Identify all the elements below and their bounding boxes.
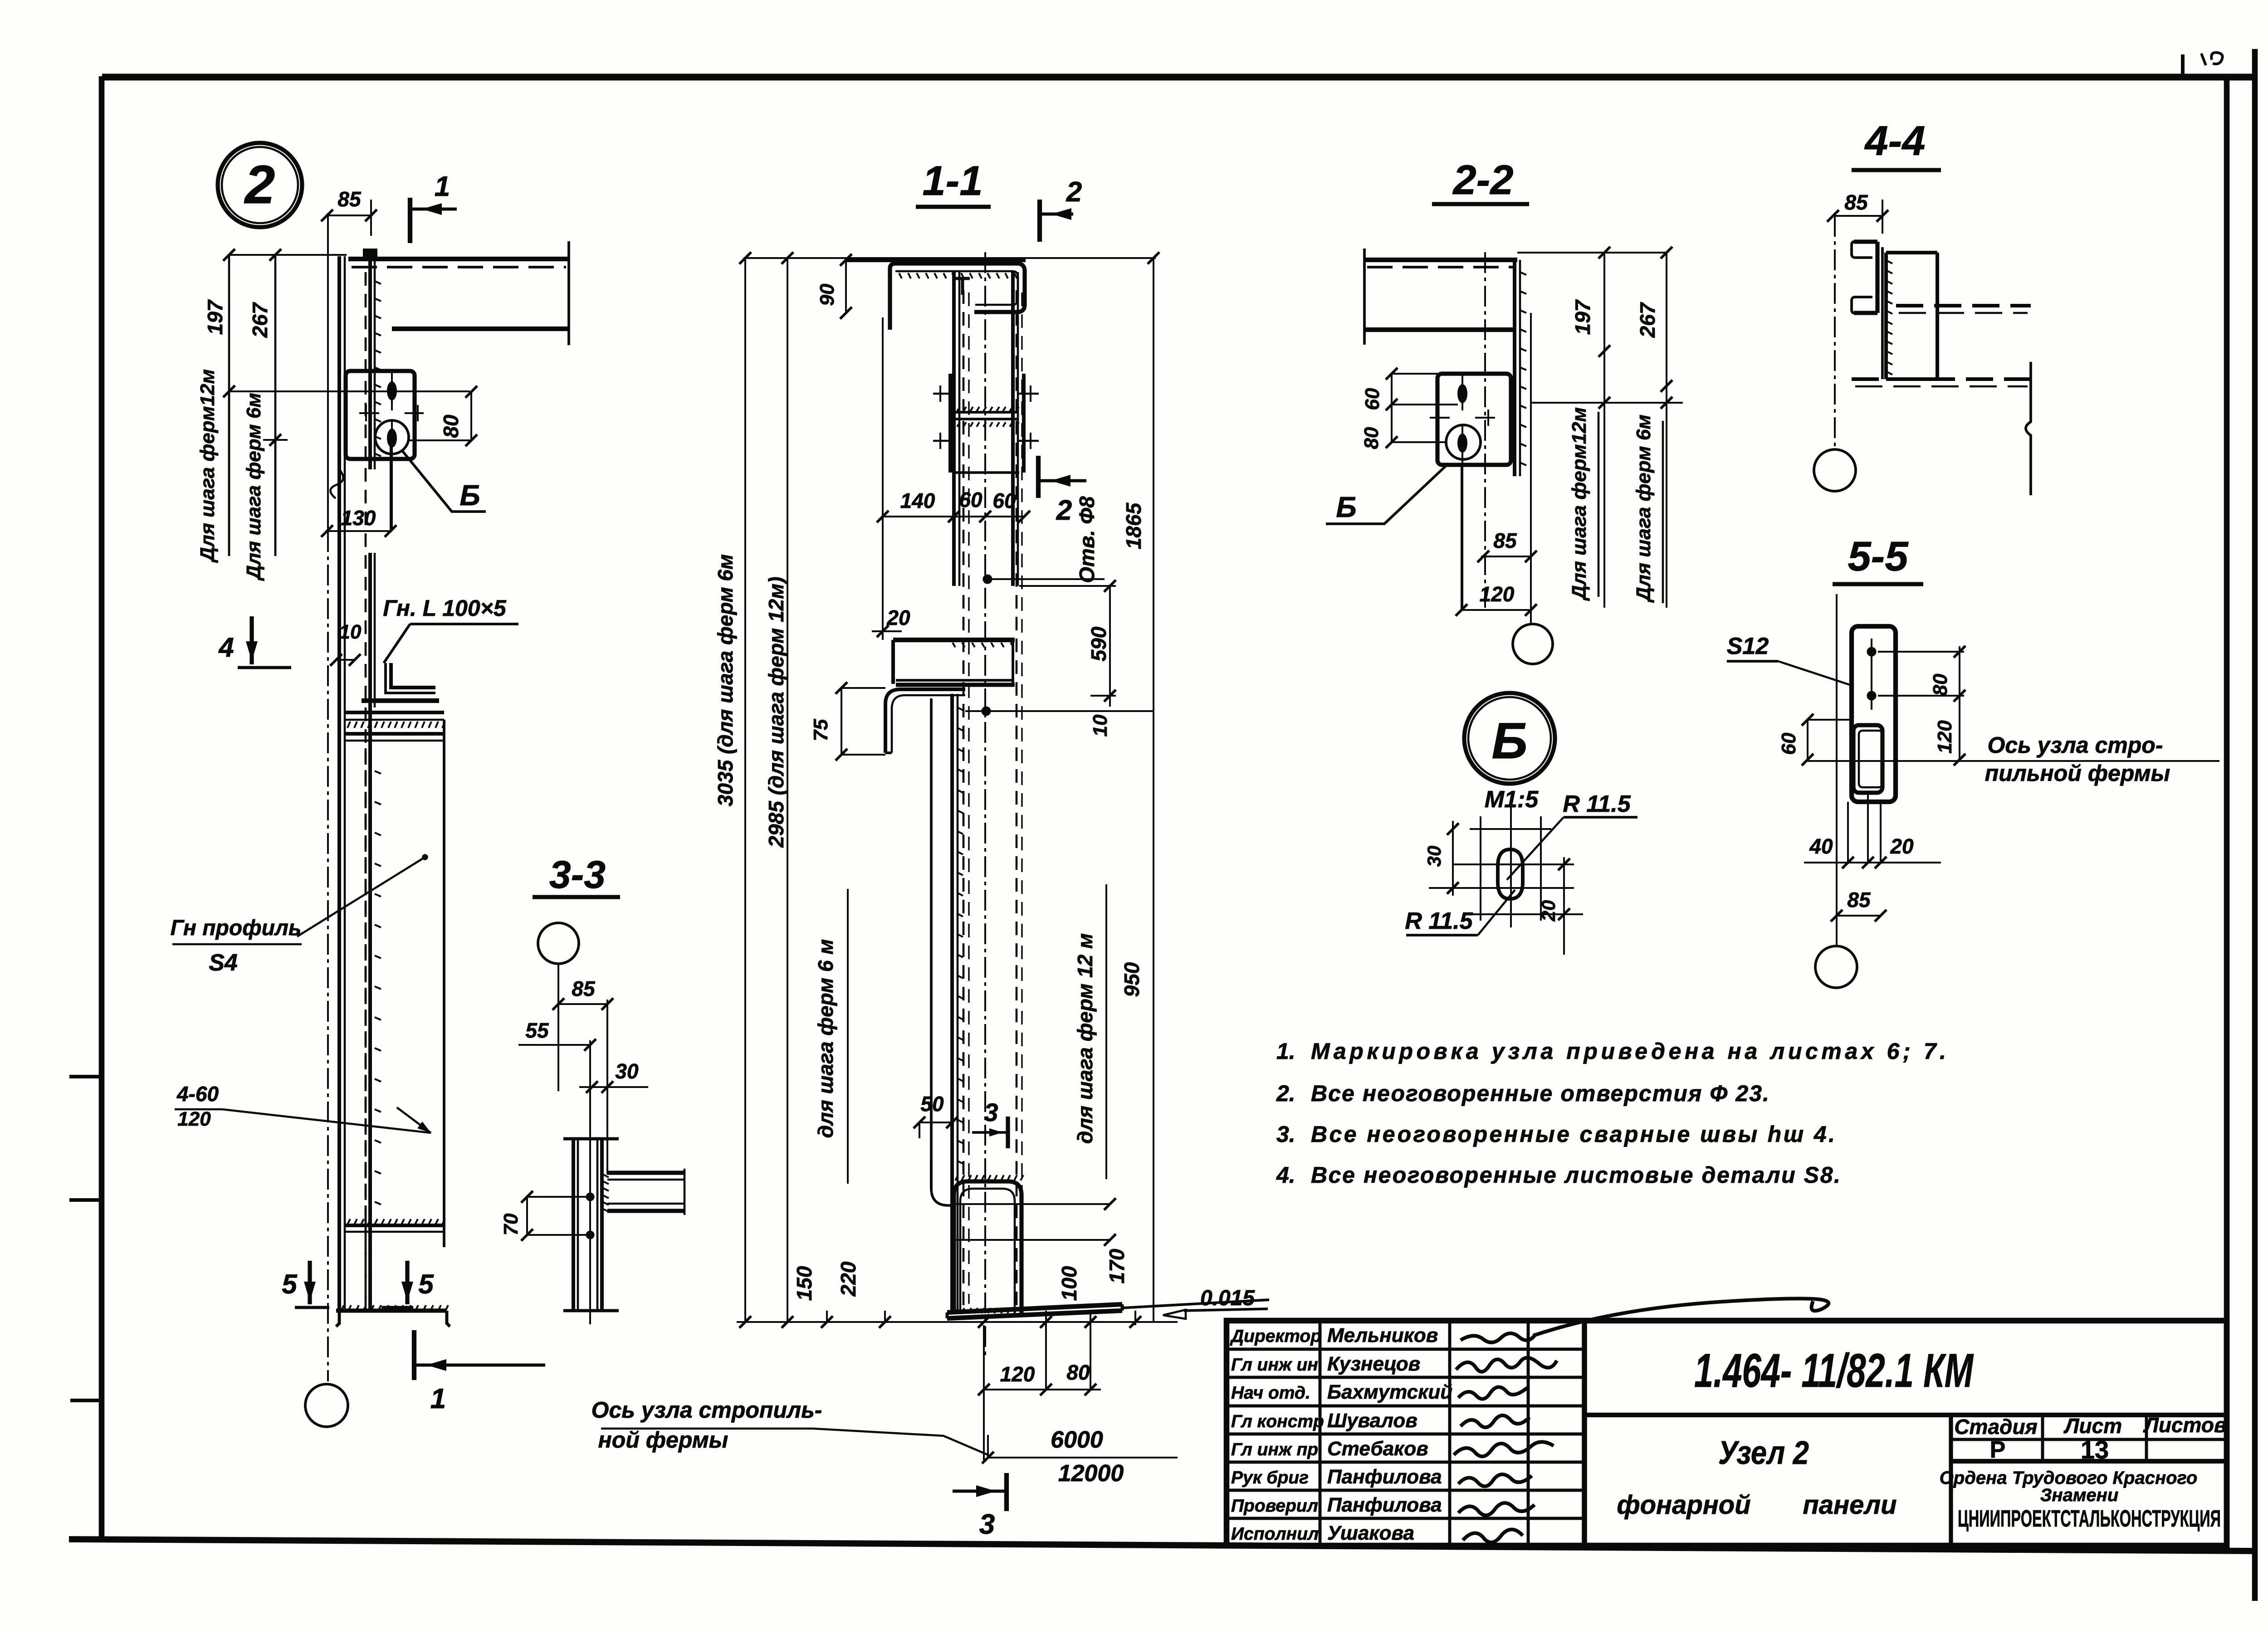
svg-text:Кузнецов: Кузнецов	[1327, 1353, 1420, 1375]
svg-text:150: 150	[792, 1266, 816, 1301]
dim line 267 2-2	[1666, 253, 1667, 386]
svg-text:Исполнил: Исполнил	[1231, 1524, 1319, 1544]
svg-text:для шага ферм 6 м: для шага ферм 6 м	[814, 939, 837, 1138]
bolt slot upper	[387, 381, 397, 400]
column hidden lines lower	[963, 290, 965, 1305]
axis bubble 5-5	[1815, 946, 1857, 988]
column hidden line	[365, 272, 367, 1306]
splice plate left	[948, 374, 952, 473]
svg-text:Листов: Листов	[2143, 1413, 2226, 1437]
panel top chord lines	[346, 711, 444, 714]
svg-text:пильной фермы: пильной фермы	[1985, 761, 2170, 786]
svg-text:Гл инж ин: Гл инж ин	[1231, 1355, 1318, 1375]
svg-text:140: 140	[900, 489, 935, 512]
svg-text:Мельников: Мельников	[1327, 1324, 1438, 1346]
axis bubble 4-4	[1814, 449, 1856, 491]
svg-text:Бахмутский: Бахмутский	[1327, 1381, 1452, 1403]
axis label leader	[813, 1429, 988, 1455]
svg-text:170: 170	[1105, 1249, 1129, 1283]
doc number divider	[1584, 1413, 2227, 1417]
column foot serration	[341, 1305, 344, 1311]
svg-text:6000: 6000	[1051, 1427, 1103, 1453]
main top dim line 1-1	[743, 257, 1156, 259]
svg-text:85: 85	[1493, 529, 1517, 552]
truss node axis line	[1808, 760, 2219, 762]
svg-text:12000: 12000	[1058, 1460, 1124, 1487]
svg-text:85: 85	[1847, 888, 1871, 912]
dim line 3035 for 6m	[744, 258, 746, 1322]
angle support thick line	[362, 698, 439, 703]
svg-text:120: 120	[177, 1108, 211, 1130]
stage header cells	[2041, 1415, 2044, 1461]
dims 40 20 5-5	[1804, 862, 1941, 863]
bent plate 75	[885, 689, 965, 753]
svg-text:80: 80	[1929, 673, 1951, 696]
svg-text:85: 85	[337, 187, 362, 211]
tee cap top sec33	[563, 1137, 619, 1141]
svg-text:70: 70	[500, 1213, 522, 1235]
base plate 1-1	[947, 1304, 1122, 1312]
svg-text:1.: 1.	[1276, 1039, 1295, 1064]
purlin beam dashed centerline	[352, 266, 566, 268]
svg-text:90: 90	[816, 283, 838, 306]
svg-text:950: 950	[1120, 962, 1144, 997]
plate 5-5	[1852, 626, 1896, 802]
bottom main dim line 1-1	[737, 1321, 1178, 1323]
column foot cap	[336, 1308, 447, 1312]
svg-text:Маркировка узла приведена на л: Маркировка узла приведена на листах 6; 7…	[1311, 1039, 1946, 1064]
svg-text:5: 5	[418, 1269, 434, 1299]
svg-text:Для шага ферм 6м: Для шага ферм 6м	[1633, 415, 1655, 603]
label B leader	[402, 450, 486, 512]
column right flange upper	[368, 259, 372, 469]
bolt arrows 2-2	[1430, 417, 1450, 419]
svg-text:Ось узла стро-: Ось узла стро-	[1987, 732, 2163, 758]
svg-text:2985 (для шага ферм 12м): 2985 (для шага ферм 12м)	[764, 576, 788, 848]
svg-text:40: 40	[1809, 834, 1833, 858]
clip angle at beam	[363, 249, 377, 259]
svg-text:Ось узла стропиль-: Ось узла стропиль-	[591, 1397, 822, 1423]
svg-text:Лист: Лист	[2063, 1414, 2122, 1438]
svg-text:для шага ферм 12 м: для шага ферм 12 м	[1073, 933, 1097, 1144]
bolt slot lower 2-2	[1457, 434, 1467, 453]
detail B circle big	[1464, 693, 1555, 784]
dim 30 sec33	[579, 1086, 648, 1088]
dim 85 sec33	[558, 1003, 607, 1005]
dim 85 top	[327, 215, 371, 216]
beam 2-2 bottom line	[1364, 327, 1515, 332]
svg-text:Б: Б	[459, 479, 480, 512]
svg-text:20: 20	[886, 606, 910, 629]
fold tick 3	[70, 1399, 102, 1402]
svg-text:3: 3	[979, 1509, 995, 1540]
svg-text:2: 2	[244, 154, 275, 215]
dim top connector view2	[229, 254, 347, 256]
dim 75	[841, 688, 842, 755]
detail circle B 2-2	[1446, 425, 1481, 459]
svg-text:Для шага ферм12м: Для шага ферм12м	[196, 369, 219, 563]
svg-text:3-3: 3-3	[549, 853, 606, 897]
dim 55 sec33	[518, 1044, 590, 1046]
plate serration 2-2	[1520, 272, 1526, 275]
bolt arrows mid	[359, 412, 379, 414]
svg-text:4: 4	[218, 632, 234, 663]
panel weld ticks	[375, 771, 381, 774]
svg-text:590: 590	[1087, 626, 1110, 661]
svg-text:3: 3	[984, 1098, 998, 1127]
label underline 12m	[228, 391, 230, 556]
dim line 1865/950 right	[1153, 258, 1154, 1322]
signature top flourish	[1533, 1298, 1828, 1336]
column right flange lower	[368, 553, 372, 1311]
axis line vertical	[327, 213, 329, 531]
svg-text:130: 130	[341, 506, 376, 530]
bolt slot upper 2-2	[1457, 384, 1467, 403]
svg-text:Р: Р	[1990, 1437, 2006, 1463]
slot detail outline	[1498, 849, 1523, 899]
dim 6000 12000	[988, 1457, 1178, 1458]
boot ref line lower	[950, 1239, 1110, 1241]
svg-text:Для шага ферм 6м: Для шага ферм 6м	[243, 393, 265, 581]
weld mark leader	[222, 1109, 431, 1133]
dim 80 5-5	[1878, 651, 1964, 653]
top channel thick line	[846, 258, 1026, 262]
splice bottom line	[954, 471, 1019, 474]
dim 60 5-5	[1807, 720, 1809, 760]
ext vertical 2-2	[1530, 313, 1532, 624]
splice joint lines	[954, 411, 1018, 414]
fold tick 1	[69, 1075, 102, 1078]
svg-text:Гл констр: Гл констр	[1231, 1412, 1324, 1431]
dim 85 5-5	[1837, 915, 1881, 917]
dim 130	[326, 530, 392, 532]
bolt dots sec33	[586, 1193, 594, 1201]
svg-text:267: 267	[1636, 302, 1659, 338]
section mark 1 bottom	[412, 1330, 416, 1380]
tee cap bottom sec33	[563, 1309, 619, 1312]
svg-text:120: 120	[1000, 1362, 1035, 1386]
shelf bracket body	[891, 640, 895, 684]
sheet border top	[102, 74, 2255, 81]
svg-text:80: 80	[439, 415, 463, 438]
svg-text:20: 20	[1538, 900, 1559, 922]
svg-text:Знамени: Знамени	[2040, 1485, 2119, 1505]
svg-text:80: 80	[1360, 427, 1383, 449]
svg-text:85: 85	[1844, 190, 1868, 214]
panel top serration	[347, 722, 350, 728]
svg-text:120: 120	[1934, 720, 1956, 754]
svg-text:Стебаков: Стебаков	[1327, 1438, 1428, 1460]
purlin beam bottom line	[392, 327, 569, 331]
svg-text:Отв. Ф8: Отв. Ф8	[1075, 496, 1099, 583]
column plate 2-2	[1513, 260, 1516, 476]
svg-text:3.: 3.	[1276, 1122, 1295, 1147]
axis bubble 2	[218, 143, 302, 227]
beam dashed bottom 4-4	[1852, 377, 2031, 381]
weld serration 4-4	[1887, 261, 1892, 263]
svg-text:55: 55	[525, 1019, 549, 1042]
beam 2-2 top line	[1364, 258, 1517, 262]
column flange left 1-1	[952, 272, 956, 586]
svg-text:60: 60	[1361, 388, 1383, 410]
svg-text:Панфилова: Панфилова	[1327, 1494, 1442, 1516]
corner tick top	[2181, 54, 2185, 77]
purlin beam top line	[348, 257, 569, 261]
svg-text:Проверил: Проверил	[1231, 1496, 1318, 1516]
extension lines bottom dims	[826, 1311, 828, 1322]
column left flange	[337, 256, 341, 1311]
svg-text:ной фермы: ной фермы	[598, 1427, 728, 1453]
dim 60 80 2-2	[1391, 374, 1393, 442]
section mark 1 top	[408, 198, 412, 243]
signature squiggles	[1461, 1333, 1536, 1342]
lantern panel S4 outline right	[443, 720, 445, 1247]
svg-text:Панфилова: Панфилова	[1327, 1466, 1442, 1488]
column section 4-4	[1884, 253, 1888, 379]
svg-text:панели: панели	[1803, 1490, 1897, 1520]
svg-text:4-4: 4-4	[1864, 118, 1926, 164]
label B leader 2-2	[1326, 465, 1447, 524]
svg-text:80: 80	[1066, 1361, 1090, 1384]
svg-text:Ушакова: Ушакова	[1327, 1522, 1414, 1544]
svg-text:Гл инж пр: Гл инж пр	[1231, 1440, 1318, 1459]
dim 590	[1109, 586, 1111, 707]
project name box divider	[1949, 1415, 1953, 1546]
title block outer	[1227, 1321, 2227, 1546]
sheet border bottom	[69, 1539, 2255, 1551]
dim 70 sec33	[526, 1195, 528, 1236]
svg-text:ЦНИИПРОЕКТСТАЛЬКОНСТРУКЦИЯ: ЦНИИПРОЕКТСТАЛЬКОНСТРУКЦИЯ	[1958, 1506, 2221, 1532]
svg-text:30: 30	[615, 1059, 639, 1083]
leader dot Gn profil S4	[423, 855, 427, 859]
column centerline 2-2	[1484, 252, 1486, 608]
svg-text:Все неоговоренные сварные швы: Все неоговоренные сварные швы hш 4.	[1311, 1122, 1835, 1147]
svg-text:Б: Б	[1336, 491, 1356, 523]
svg-text:1865: 1865	[1122, 502, 1145, 549]
svg-text:2-2: 2-2	[1452, 157, 1514, 203]
label truss 6m 2-2	[1666, 386, 1667, 608]
svg-text:85: 85	[572, 977, 596, 1000]
bolt dot upper 5-5	[1867, 647, 1876, 656]
top channel C profile	[890, 263, 1025, 330]
svg-text:2.: 2.	[1276, 1081, 1295, 1106]
panel second chord	[346, 732, 444, 736]
dim 120 2-2	[1461, 609, 1531, 611]
detail circle B small	[375, 420, 409, 454]
svg-text:10: 10	[339, 621, 362, 643]
svg-text:S12: S12	[1727, 633, 1769, 659]
slope line to 0.015	[1122, 1300, 1269, 1308]
svg-text:1: 1	[430, 1383, 446, 1415]
shelf serration	[953, 643, 955, 647]
column centerline 1-1	[984, 252, 986, 1356]
weld ticks sec33	[603, 1175, 609, 1177]
tee member end break	[684, 1169, 686, 1215]
svg-text:4-60: 4-60	[176, 1082, 219, 1106]
svg-text:Директор: Директор	[1230, 1327, 1321, 1346]
svg-text:4.: 4.	[1276, 1162, 1295, 1188]
svg-text:Все неоговоренные листовые дет: Все неоговоренные листовые детали S8.	[1311, 1162, 1840, 1188]
fold tick 2	[69, 1198, 102, 1202]
svg-text:Рук бриг: Рук бриг	[1231, 1468, 1309, 1488]
bolt marks splice lower	[933, 440, 954, 442]
svg-text:60: 60	[1778, 732, 1800, 755]
dim line 2985 for 12m	[787, 258, 788, 1322]
svg-text:5-5: 5-5	[1848, 533, 1909, 580]
svg-text:Шувалов: Шувалов	[1327, 1410, 1417, 1432]
section mark 4 left fix	[249, 616, 254, 664]
column web lower 1-1	[950, 694, 954, 1311]
svg-text:фонарной: фонарной	[1617, 1490, 1750, 1520]
panel bottom serration	[347, 1219, 350, 1224]
svg-text:75: 75	[810, 719, 832, 741]
dims 140 60 60	[883, 516, 1024, 517]
svg-text:20: 20	[1890, 834, 1914, 858]
svg-text:1: 1	[435, 171, 450, 202]
panel bottom chord	[346, 1224, 444, 1227]
svg-text:Узел 2: Узел 2	[1718, 1435, 1809, 1471]
svg-text:100: 100	[1057, 1266, 1081, 1301]
svg-text:13: 13	[2081, 1435, 2109, 1464]
svg-text:2: 2	[1066, 176, 1082, 208]
column break squiggle	[330, 469, 343, 498]
center line sec33	[589, 1040, 591, 1324]
boot ref line upper	[950, 1203, 1110, 1205]
corner handwritten mark 16	[2201, 53, 2223, 65]
tee horizontal member sec33	[607, 1171, 684, 1175]
dim top connector 2-2	[1517, 252, 1667, 254]
purlin beam end break	[567, 241, 570, 345]
svg-text:267: 267	[248, 302, 272, 338]
beam dashed top 4-4	[1896, 304, 2031, 307]
svg-text:Для шага ферм12м: Для шага ферм12м	[1568, 407, 1590, 601]
dim line 267 view2	[274, 255, 277, 556]
mid tick line 2-2	[1531, 402, 1683, 404]
svg-text:Гн профиль: Гн профиль	[171, 916, 302, 940]
beam 2-2 dashed line	[1367, 266, 1515, 268]
channel section inside 5-5	[1853, 725, 1882, 793]
black dot line 590 level	[982, 707, 991, 716]
section mark 3 bottom	[1004, 1473, 1009, 1511]
dim 120 80 below base	[983, 1325, 985, 1460]
web serration	[958, 707, 963, 710]
svg-text:Стадия: Стадия	[1954, 1415, 2037, 1439]
svg-text:5: 5	[282, 1269, 298, 1299]
boot serration	[955, 1175, 958, 1180]
column weld serration right	[375, 281, 381, 284]
svg-text:3035 (для шага ферм 6м: 3035 (для шага ферм 6м	[714, 554, 737, 806]
column flange right 1-1	[1011, 272, 1015, 586]
axis bubble 3-3	[538, 923, 579, 964]
column boot 1-1	[954, 1181, 1022, 1314]
axis bubble bottom view2	[305, 1384, 348, 1427]
svg-text:2: 2	[1056, 495, 1072, 526]
bent angle Gn L100x5	[391, 663, 435, 688]
hole dot otv f8	[983, 575, 992, 584]
dim 80 view2	[229, 390, 470, 392]
tee vertical member sec33	[572, 1139, 575, 1311]
svg-text:R 11.5: R 11.5	[1405, 908, 1473, 934]
sheet border right inner	[2224, 77, 2230, 1547]
axis line 5-5	[1836, 594, 1838, 946]
channel profile 4-4	[1854, 239, 1877, 244]
shelf bracket top	[893, 638, 1015, 642]
svg-text:197: 197	[1571, 299, 1594, 335]
T weld mark top	[956, 277, 970, 280]
svg-text:1-1: 1-1	[923, 158, 983, 204]
svg-text:197: 197	[203, 299, 227, 335]
label truss 12m 2-2	[1603, 351, 1605, 608]
svg-text:Б: Б	[1491, 712, 1527, 769]
svg-text:R 11.5: R 11.5	[1563, 791, 1631, 817]
svg-text:Гн. L 100×5: Гн. L 100×5	[383, 595, 507, 621]
splice plate right	[1022, 374, 1026, 473]
title block row lines	[1227, 1348, 1584, 1351]
label underline 6m	[274, 440, 277, 556]
axis bubble 2-2 bottom	[1513, 624, 1553, 664]
web end plate rounded	[930, 698, 933, 1188]
plate face line sec33	[606, 1000, 608, 1175]
svg-text:1.464- 11/82.1 КМ: 1.464- 11/82.1 КМ	[1694, 1344, 1974, 1397]
svg-text:S4: S4	[209, 950, 238, 976]
dim line 197 2-2	[1603, 253, 1605, 351]
svg-text:30: 30	[1423, 846, 1445, 867]
beam end break 4-4	[2026, 362, 2031, 495]
title block signature col lines	[1319, 1321, 1322, 1546]
top channel serration	[899, 273, 902, 278]
dim 85 2-2	[1481, 556, 1531, 557]
beam 2-2 left break	[1363, 249, 1366, 345]
panel hidden dashes	[365, 748, 367, 1220]
bolt marks splice upper	[933, 393, 954, 395]
svg-text:120: 120	[1480, 582, 1515, 606]
svg-text:Все неоговоренные отверстия Ф: Все неоговоренные отверстия Ф 23.	[1311, 1081, 1769, 1106]
gusset plate 2-2	[1437, 374, 1511, 465]
svg-text:60: 60	[992, 489, 1016, 512]
svg-text:10: 10	[1089, 714, 1111, 737]
dim 90 top channel	[845, 260, 847, 313]
bolt dot lower 5-5	[1867, 691, 1876, 700]
sheet border right outer	[2252, 49, 2258, 1601]
gusset plate node 2	[346, 371, 415, 459]
svg-text:0.015: 0.015	[1200, 1286, 1255, 1310]
slot detail grid	[1470, 828, 1551, 830]
bolt slot lower	[387, 429, 397, 448]
sheet border left	[99, 76, 105, 1540]
axis line 4-4	[1834, 216, 1836, 449]
dim line 197 view2	[228, 255, 230, 556]
svg-text:Нач отд.: Нач отд.	[1231, 1383, 1310, 1403]
svg-text:220: 220	[836, 1261, 860, 1297]
